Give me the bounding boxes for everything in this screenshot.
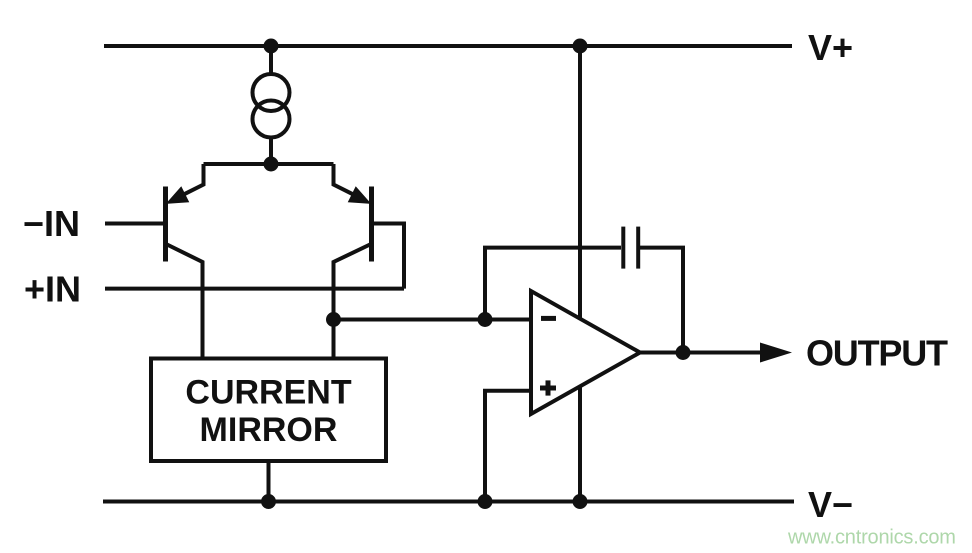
wire feedback left vertical and top to capacitor	[485, 248, 621, 320]
wire Q2 base lead to +IN	[374, 224, 404, 289]
wire V- bottom rail	[103, 500, 794, 504]
wire current mirror to V-	[267, 461, 271, 502]
wire current source bottom lead	[269, 137, 273, 164]
wire current source top lead	[269, 46, 273, 74]
svg-text:OUTPUT: OUTPUT	[806, 333, 948, 374]
wire Q2 collector	[334, 244, 372, 359]
current source I1 circle 2	[253, 101, 290, 138]
wire -IN base lead	[105, 222, 163, 226]
wire op-amp output	[640, 351, 764, 355]
current mirror box	[151, 359, 386, 462]
svg-text:V+: V+	[808, 27, 853, 68]
transistor Q1 emitter arrowhead	[168, 188, 189, 203]
node dot top rail / current source	[264, 39, 279, 54]
op-amp plus input symbol horizontal	[540, 386, 556, 391]
wire capacitor to output node	[640, 248, 683, 353]
node dot feedback / minus wire	[478, 312, 493, 327]
transistor Q2 emitter arrowhead	[349, 188, 370, 203]
svg-text:+IN: +IN	[24, 269, 81, 310]
svg-text:−IN: −IN	[23, 203, 80, 244]
svg-text:V−: V−	[808, 484, 853, 525]
capacitor C1 right plate	[636, 227, 640, 269]
op-amp plus input symbol vertical	[546, 380, 551, 395]
output arrowhead	[760, 343, 792, 363]
node dot bottom rail / current mirror	[261, 494, 276, 509]
wire main vertical V+ to V- behind op-amp	[578, 46, 582, 502]
transistor Q1 base bar	[163, 187, 168, 262]
op-amp minus input symbol	[541, 316, 556, 321]
transistor Q2 base bar	[369, 187, 374, 262]
node dot bottom rail / plus wire	[478, 494, 493, 509]
svg-text:MIRROR: MIRROR	[200, 411, 338, 449]
wire Q1 emitter bend	[183, 164, 204, 195]
current source I1 circle 1	[253, 74, 290, 111]
wire Q2 emitter bend	[334, 164, 355, 195]
op-amp U1 triangle	[531, 291, 640, 414]
node dot Q2 collector / minus wire	[326, 312, 341, 327]
node dot bottom rail / main vertical	[573, 494, 588, 509]
wire emitter rail between Q1 and Q2	[204, 162, 334, 166]
wire V+ top rail	[104, 44, 792, 48]
svg-text:CURRENT: CURRENT	[185, 374, 351, 412]
wire +IN line	[105, 287, 404, 291]
node dot top rail / main vertical	[573, 39, 588, 54]
wire op-amp plus input to V-	[485, 391, 531, 502]
capacitor C1 left plate	[621, 227, 625, 269]
wire Q1 collector	[166, 244, 203, 359]
wire collector node to op-amp minus input	[334, 318, 532, 322]
node dot current source / emitter rail	[264, 157, 279, 172]
svg-text:www.cntronics.com: www.cntronics.com	[787, 527, 956, 549]
node dot output / feedback	[676, 345, 691, 360]
